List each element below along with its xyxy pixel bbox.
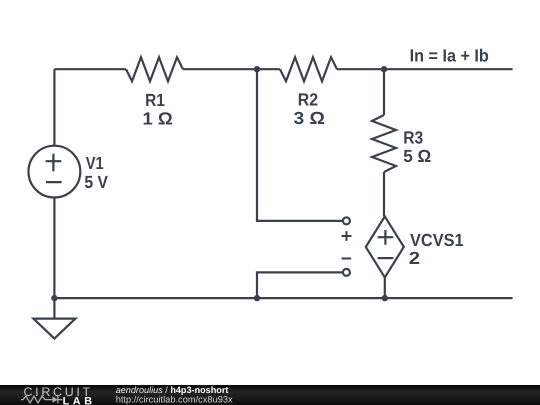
V1 plus sign bbox=[46, 154, 62, 172]
svg-text:LAB: LAB bbox=[63, 395, 94, 405]
voltage source V1 bbox=[29, 146, 81, 198]
logo resistor motif bbox=[21, 396, 53, 403]
wire top rail left bbox=[54, 68, 126, 70]
wire left rail upper bbox=[53, 69, 55, 146]
ground stem bbox=[53, 298, 55, 319]
svg-text:2: 2 bbox=[409, 248, 421, 268]
wire R1 to node A bbox=[183, 68, 280, 70]
svg-text:V1: V1 bbox=[86, 153, 104, 173]
wire R2 to right end bbox=[337, 68, 513, 70]
svg-text:In = Ia + Ib: In = Ia + Ib bbox=[410, 46, 489, 66]
svg-text:R3: R3 bbox=[403, 128, 423, 148]
resistor R2 bbox=[280, 57, 337, 81]
control plus sign bbox=[342, 231, 352, 241]
junction ground node bbox=[51, 295, 57, 301]
svg-text:R1: R1 bbox=[145, 90, 165, 110]
svg-text:5 V: 5 V bbox=[84, 172, 108, 192]
ground triangle bbox=[33, 319, 75, 339]
svg-text:3 Ω: 3 Ω bbox=[294, 108, 325, 128]
VCVS1 plus sign bbox=[378, 230, 394, 245]
junction node A bbox=[254, 66, 260, 72]
svg-text:VCVS1: VCVS1 bbox=[410, 230, 464, 250]
VCVS1 minus sign bbox=[378, 257, 394, 259]
junction bottom node A bbox=[254, 295, 260, 301]
svg-text:http://circuitlab.com/cx8u93x: http://circuitlab.com/cx8u93x bbox=[116, 395, 233, 405]
wire node B down to R3 bbox=[383, 69, 385, 115]
junction bottom node B bbox=[382, 295, 388, 301]
wire VCVS1 to bottom rail bbox=[384, 277, 386, 298]
control minus terminal circle bbox=[343, 269, 350, 276]
wire bottom rail bbox=[54, 297, 512, 299]
wire node A down to control plus terminal bbox=[257, 69, 343, 221]
svg-text:R2: R2 bbox=[298, 90, 318, 110]
resistor R3 bbox=[372, 115, 396, 172]
wire R3 to VCVS1 bbox=[383, 172, 385, 216]
resistor R1 bbox=[126, 57, 183, 81]
junction node B bbox=[381, 66, 387, 72]
dependent source VCVS1 bbox=[366, 216, 404, 277]
wire control minus terminal to bottom rail bbox=[257, 272, 343, 298]
wire left rail lower bbox=[53, 198, 55, 299]
control plus terminal circle bbox=[343, 217, 350, 224]
V1 minus sign bbox=[46, 181, 62, 183]
control minus sign bbox=[342, 258, 352, 260]
svg-text:1 Ω: 1 Ω bbox=[143, 108, 173, 128]
logo diode bbox=[53, 396, 58, 403]
svg-text:5 Ω: 5 Ω bbox=[403, 146, 431, 166]
